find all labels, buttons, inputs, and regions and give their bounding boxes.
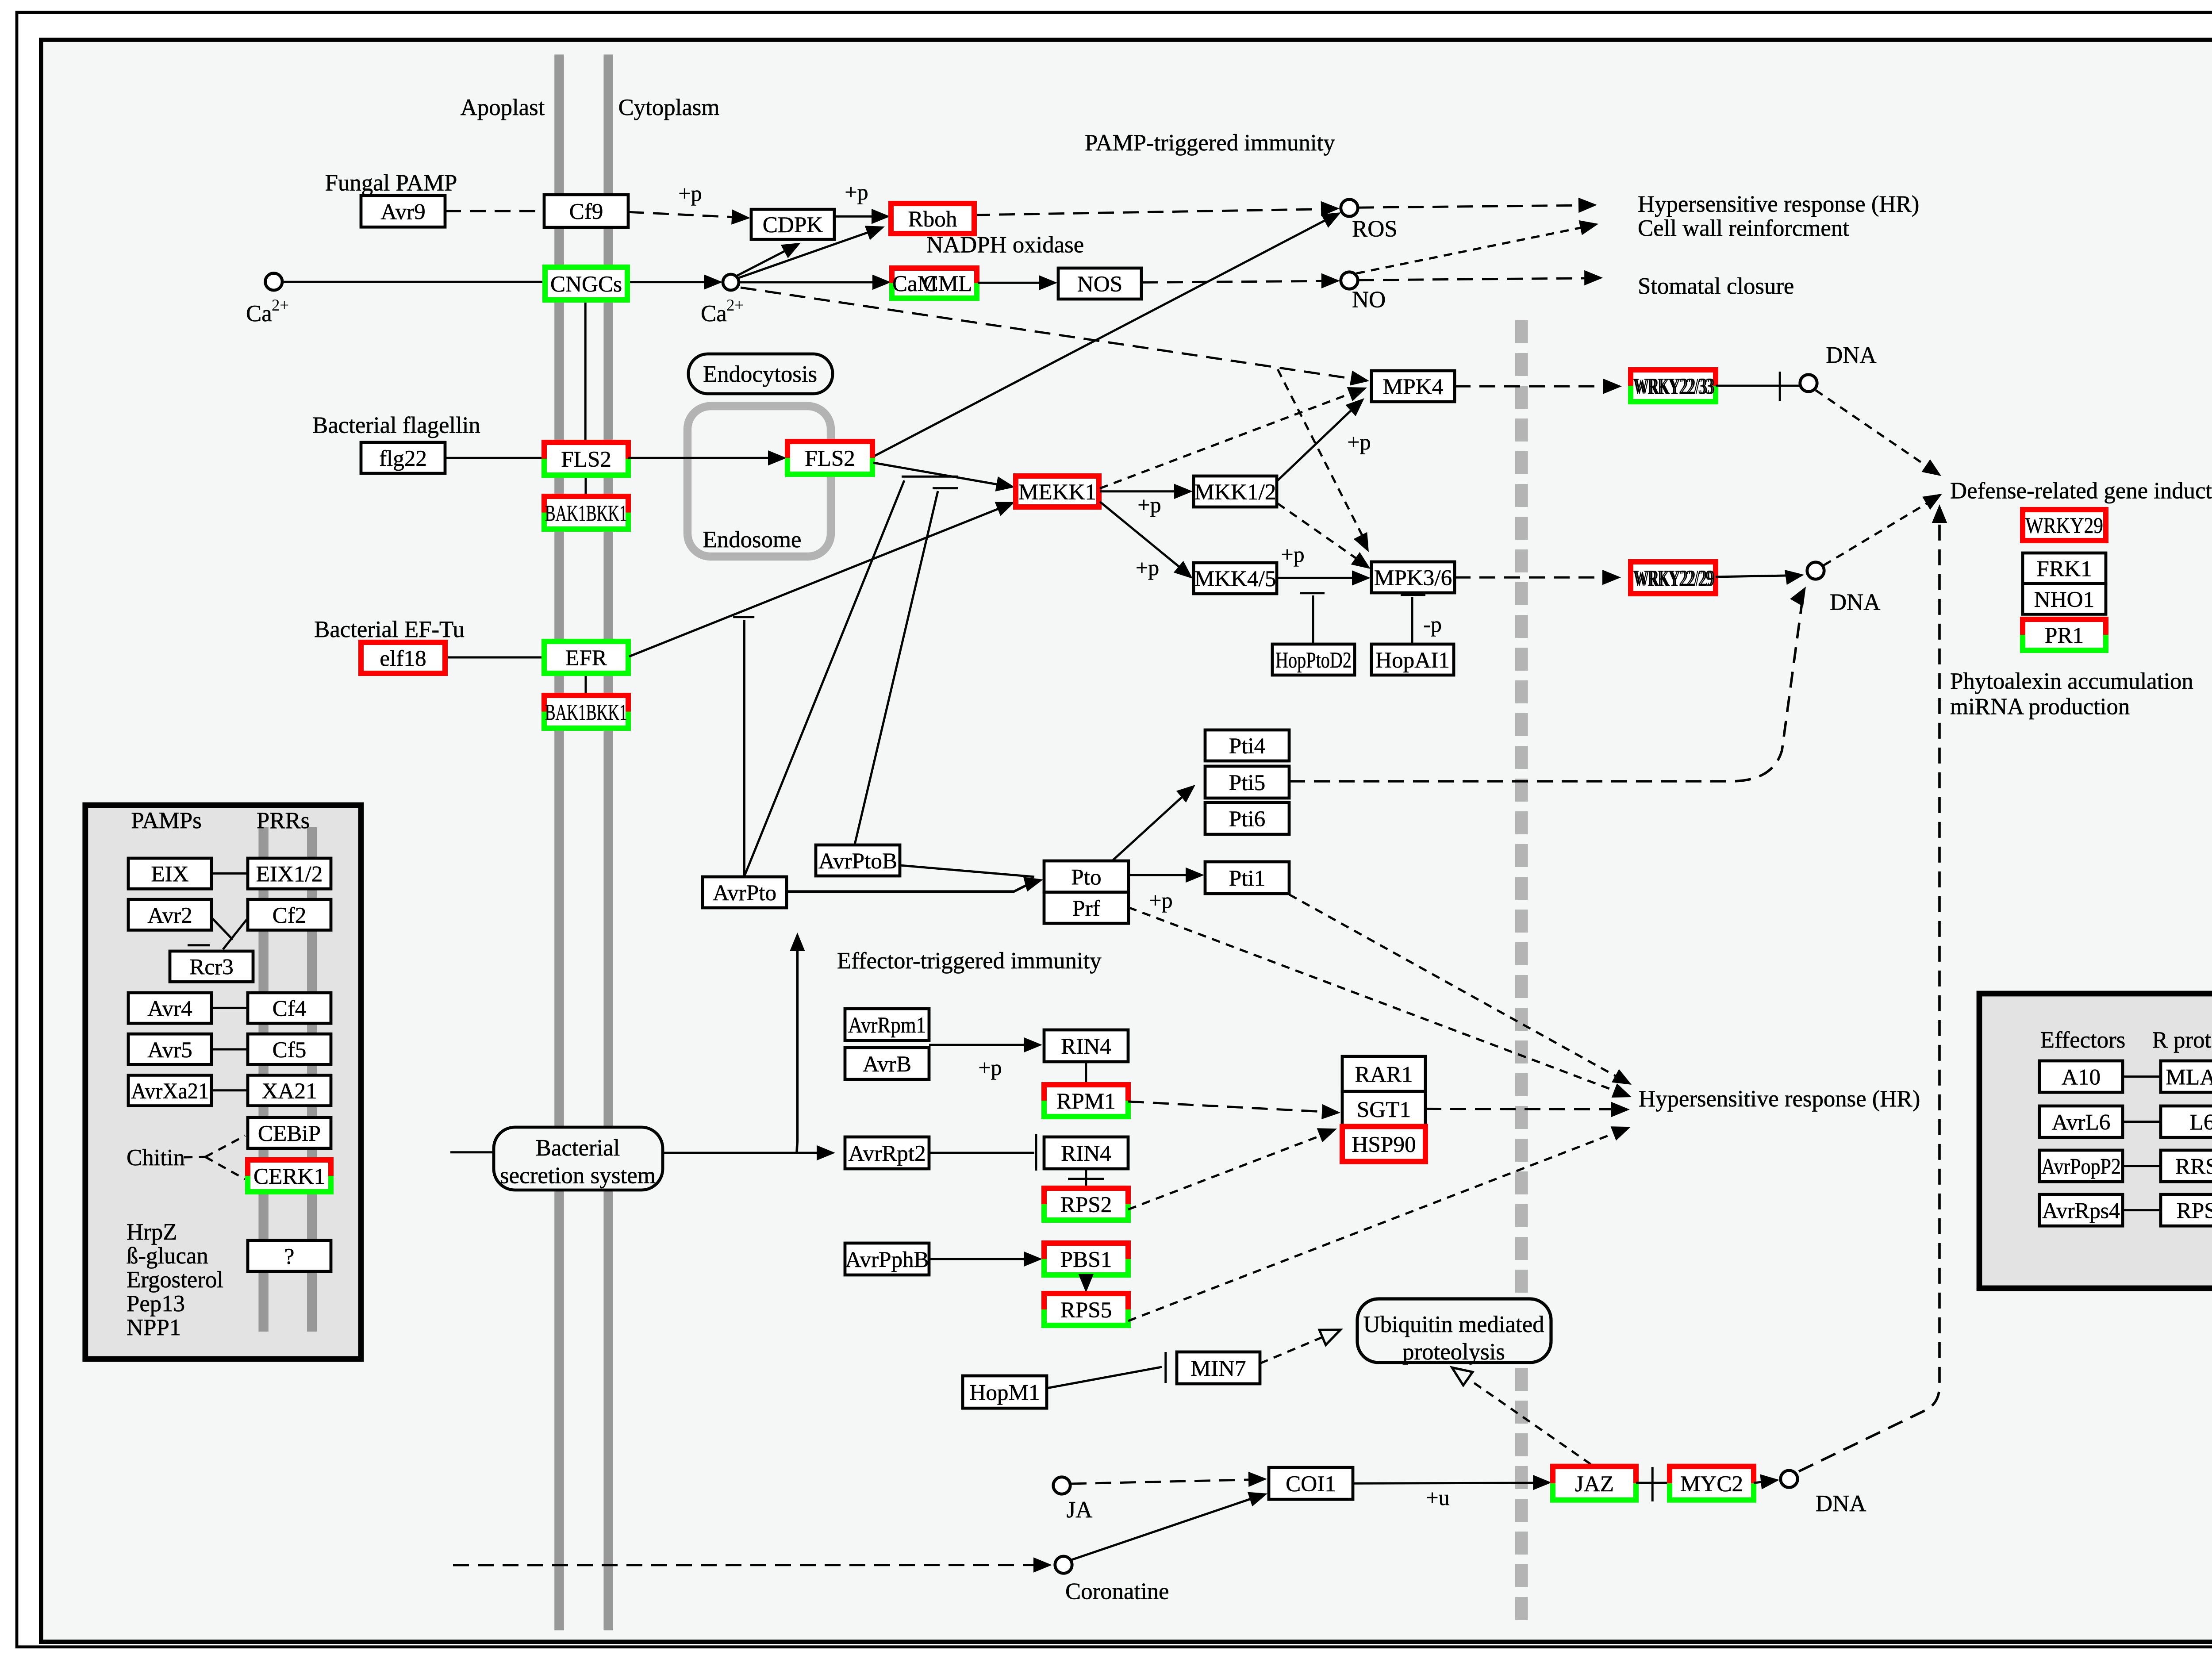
svg-text:+p: +p [978, 1055, 1002, 1080]
svg-text:HopM1: HopM1 [969, 1380, 1040, 1405]
svg-text:HrpZ: HrpZ [127, 1219, 177, 1245]
svg-text:AvrPopP2: AvrPopP2 [2041, 1154, 2121, 1179]
wire AvrRpm1-RIN4a [929, 1044, 1033, 1045]
wire FLS2endosome-ROS [873, 215, 1335, 457]
svg-text:-p: -p [1423, 612, 1442, 637]
wire flg22-FLS2 [445, 457, 544, 458]
wire Rcr3-Cf2 [223, 919, 247, 949]
wire AvrPto-Pto [787, 881, 1034, 891]
svg-text:+p: +p [1137, 492, 1161, 517]
svg-text:MPK4: MPK4 [1383, 374, 1444, 399]
svg-text:WRKY22/29: WRKY22/29 [1635, 566, 1715, 591]
wire AvrPopP2-RRS1 [2123, 1166, 2161, 1167]
svg-text:RRS1: RRS1 [2175, 1154, 2212, 1179]
wire Coronatine-COI1 [1071, 1496, 1260, 1560]
svg-text:MIN7: MIN7 [1190, 1356, 1246, 1381]
svg-text:+u: +u [1426, 1485, 1449, 1510]
box JAZ split [1553, 1467, 1636, 1500]
box NHO1 [2023, 584, 2106, 614]
svg-text:Cf2: Cf2 [273, 903, 307, 928]
wire AvrPtoB-Pto [900, 865, 1034, 877]
svg-text:EFR: EFR [565, 645, 607, 671]
svg-text:Pti1: Pti1 [1229, 866, 1266, 891]
svg-text:HopAI1: HopAI1 [1375, 648, 1450, 673]
svg-text:CML: CML [923, 271, 972, 296]
wire AvrPto diagonal inhibition [744, 480, 904, 877]
box AvrRpt2 [845, 1137, 929, 1169]
wire Pto-Pti5 [1113, 791, 1189, 860]
svg-text:RPS5: RPS5 [1060, 1298, 1112, 1323]
wire CNGCs-FLS2 vertical [585, 300, 586, 442]
box Cf4 [248, 993, 331, 1023]
box AvrPopP2 [2039, 1150, 2123, 1182]
box BAK1/BKK1 a split [544, 496, 628, 529]
svg-text:Prf: Prf [1072, 896, 1101, 921]
wire DNA2-defense dashed [1824, 497, 1937, 565]
svg-text:Pti6: Pti6 [1229, 806, 1266, 832]
box RAR1 [1342, 1056, 1425, 1091]
box Pti5 [1205, 766, 1289, 798]
wire MKK1/2-MPK3/6 dashed [1278, 503, 1365, 564]
svg-text:Avr9: Avr9 [380, 200, 425, 225]
wire Chitin branch [184, 1156, 205, 1158]
wire MYC2-DNA3 [1754, 1481, 1770, 1483]
svg-text:+p: +p [845, 180, 868, 204]
wire MIN7-ubiquitin dashed [1260, 1333, 1332, 1363]
svg-text:+p: +p [1136, 555, 1159, 580]
svg-text:EIX: EIX [151, 862, 188, 887]
wire JAZ-MYC2 inhibition [1636, 1482, 1670, 1483]
box MPK4 [1371, 371, 1455, 402]
box Pti4 [1205, 730, 1289, 761]
wire WRKY22/33-DNA1 inhibition [1716, 385, 1799, 386]
svg-text:2+: 2+ [726, 296, 744, 314]
svg-text:CNGCs: CNGCs [550, 272, 622, 297]
wire AvrXa21-XA21 [211, 1090, 248, 1091]
svg-text:CERK1: CERK1 [253, 1164, 325, 1189]
svg-text:Effector-triggered immunity: Effector-triggered immunity [837, 948, 1102, 974]
wire JA-COI1 dashed [1071, 1479, 1258, 1484]
box Rboh red [891, 203, 974, 234]
svg-text:AvrPtoB: AvrPtoB [818, 848, 897, 874]
box EIX [128, 858, 211, 889]
svg-text:Endocytosis: Endocytosis [703, 361, 817, 387]
svg-text:AvrL6: AvrL6 [2052, 1110, 2111, 1135]
box HopM1 [963, 1376, 1047, 1408]
svg-text:NOS: NOS [1077, 272, 1122, 297]
svg-text:NHO1: NHO1 [2034, 587, 2095, 612]
svg-text:Hypersensitive response (HR): Hypersensitive response (HR) [1639, 1086, 1920, 1112]
box CERK1 split [248, 1160, 331, 1192]
wire CaMCML-NOS [978, 282, 1048, 283]
box AvrPtoB [816, 845, 900, 876]
svg-text:RAR1: RAR1 [1355, 1062, 1413, 1087]
node Ca2+ outside [265, 273, 282, 290]
box flg22 [361, 442, 445, 473]
box Pto [1044, 861, 1129, 892]
svg-text:Avr2: Avr2 [147, 903, 192, 928]
svg-text:PAMPs: PAMPs [131, 808, 202, 833]
box RRS1 [2161, 1150, 2212, 1182]
svg-text:PBS1: PBS1 [1060, 1247, 1112, 1272]
box FLS2 endosome split [787, 441, 872, 474]
svg-text:Cf5: Cf5 [273, 1037, 307, 1063]
wire Avr9-Cf9 dashed [445, 211, 544, 211]
svg-text:DNA: DNA [1830, 589, 1880, 615]
wire into secretion system [450, 1152, 494, 1153]
box MLA10 [2161, 1061, 2212, 1092]
wire secretion-effectors vertical [797, 941, 797, 1153]
wire Cf9-CDPK dashed [628, 212, 741, 217]
svg-text:Bacterial: Bacterial [536, 1135, 620, 1161]
svg-text:AvrPphB: AvrPphB [845, 1247, 929, 1272]
wire MEKK1-MKK4/5 [1100, 502, 1186, 572]
svg-text:FLS2: FLS2 [561, 447, 611, 472]
svg-text:COI1: COI1 [1286, 1471, 1336, 1497]
node DNA2 [1807, 562, 1824, 579]
svg-text:Avr4: Avr4 [147, 996, 192, 1021]
node Coronatine [1055, 1556, 1072, 1573]
legend Effectors box [1979, 994, 2212, 1288]
wire AvrPphB-PBS1 [929, 1259, 1033, 1259]
box Avr5 [128, 1034, 211, 1064]
wire AvrL6-L6 [2123, 1121, 2161, 1122]
wire CNGCs-Ca2+node [627, 282, 713, 283]
svg-text:miRNA production: miRNA production [1950, 694, 2130, 719]
svg-text:AvrB: AvrB [863, 1052, 911, 1077]
wire RIN4a-RPM1 [1086, 1062, 1087, 1085]
wire DNA3-defense long dashed [1799, 513, 1939, 1471]
svg-text:+p: +p [1149, 888, 1172, 913]
shape Ubiquitin mediated proteolysis [1357, 1299, 1551, 1363]
box AvrPphB [845, 1243, 929, 1275]
svg-text:RIN4: RIN4 [1061, 1141, 1111, 1166]
svg-text:secretion system: secretion system [500, 1163, 656, 1188]
wire Pti5-DNA2 dashed [1289, 603, 1802, 781]
wire ROS-HR dashed [1358, 205, 1587, 207]
svg-text:AvrXa21: AvrXa21 [131, 1079, 209, 1104]
svg-text:Cf9: Cf9 [569, 199, 603, 224]
box L6 [2161, 1106, 2212, 1137]
box MPK3/6 [1371, 562, 1455, 593]
svg-text:Effectors: Effectors [2040, 1027, 2126, 1053]
wire Avr5-Cf5 [211, 1049, 248, 1050]
wire EIX-EIX1/2 [211, 873, 248, 874]
wire Pti1-HR dashed [1289, 895, 1624, 1081]
svg-text:SGT1: SGT1 [1357, 1097, 1411, 1122]
wire COI1-JAZ [1353, 1483, 1541, 1483]
box PR1 split [2023, 619, 2106, 650]
svg-text:XA21: XA21 [261, 1079, 317, 1104]
svg-text:Phytoalexin accumulation: Phytoalexin accumulation [1950, 668, 2193, 694]
box Rcr3 [170, 951, 253, 982]
box EIX1/2 [248, 858, 331, 889]
svg-text:Stomatal closure: Stomatal closure [1638, 273, 1794, 299]
svg-text:EIX1/2: EIX1/2 [256, 862, 323, 887]
svg-text:NADPH oxidase: NADPH oxidase [926, 232, 1084, 257]
svg-text:BAK1BKK1: BAK1BKK1 [545, 501, 627, 526]
svg-text:Defense-related gene induction: Defense-related gene induction [1950, 478, 2212, 503]
box SGT1 [1342, 1091, 1425, 1126]
svg-text:Bacterial flagellin: Bacterial flagellin [312, 412, 480, 438]
box COI1 [1269, 1467, 1353, 1499]
wire NO-stomatal dashed [1358, 278, 1594, 280]
svg-text:Rcr3: Rcr3 [189, 955, 234, 980]
svg-text:HSP90: HSP90 [1352, 1132, 1416, 1157]
wire MKK4/5-MPK3/6 [1277, 577, 1362, 578]
svg-text:PAMP-triggered immunity: PAMP-triggered immunity [1085, 130, 1335, 156]
svg-text:2+: 2+ [272, 296, 289, 314]
svg-text:MLA10: MLA10 [2166, 1065, 2212, 1090]
svg-text:JAZ: JAZ [1575, 1471, 1614, 1497]
shape Bacterial secretion system [494, 1127, 663, 1190]
wire Avr4-Cf4 [211, 1007, 248, 1008]
wire Ca2+node-MPK4 dashed [741, 288, 1359, 380]
box MKK4/5 [1194, 563, 1277, 594]
wire Ca2+out-CNGCs [282, 281, 544, 282]
svg-text:RPM1: RPM1 [1056, 1089, 1116, 1114]
wire AvrRps4-RPS4 [2123, 1210, 2161, 1211]
svg-text:RIN4: RIN4 [1061, 1034, 1111, 1059]
box RPM1 split [1044, 1085, 1128, 1117]
svg-text:BAK1BKK1: BAK1BKK1 [545, 700, 627, 725]
svg-text:NPP1: NPP1 [127, 1315, 181, 1340]
box RPS4 [2161, 1194, 2212, 1226]
node Ca2+ inside [723, 274, 739, 290]
box Cf2 [248, 899, 331, 930]
svg-text:MPK3/6: MPK3/6 [1374, 565, 1452, 591]
node JA [1053, 1477, 1070, 1494]
svg-text:+p: +p [1281, 542, 1304, 567]
svg-text:Pti4: Pti4 [1229, 733, 1266, 759]
wire FLS2m-FLS2e [628, 457, 778, 458]
box Avr2 [128, 899, 211, 930]
box question [248, 1240, 331, 1271]
svg-text:ROS: ROS [1352, 216, 1398, 242]
wire NOS-NO dashed [1142, 281, 1331, 282]
svg-text:HopPtoD2: HopPtoD2 [1275, 648, 1352, 673]
svg-text:NO: NO [1352, 287, 1386, 312]
wire MEKK1-MKK1/2 [1100, 491, 1184, 492]
svg-text:Pti5: Pti5 [1229, 770, 1266, 795]
shape Endosome [687, 406, 831, 557]
svg-text:RPS2: RPS2 [1060, 1192, 1112, 1217]
wire Avr2-Rcr3 inhibition [211, 918, 233, 940]
box RPS2 split [1044, 1188, 1128, 1220]
svg-text:DNA: DNA [1816, 1491, 1866, 1516]
svg-text:WRKY22/33: WRKY22/33 [1635, 374, 1715, 399]
box MEKK1 red [1016, 476, 1099, 507]
box XA21 [248, 1075, 331, 1106]
wire HopM1-MIN7 inhibition [1047, 1367, 1162, 1388]
wire AvrPtoB inhibition [855, 491, 938, 845]
legend PAMPs box [85, 805, 361, 1359]
box Pti1 [1205, 862, 1289, 894]
box MKK1/2 [1194, 476, 1277, 507]
svg-text:Coronatine: Coronatine [1065, 1578, 1169, 1604]
svg-text:+p: +p [1347, 430, 1371, 454]
svg-text:Ca: Ca [701, 301, 727, 326]
svg-text:R proteins: R proteins [2152, 1027, 2212, 1053]
wire RIN4b-RPS2 inhibition [1086, 1169, 1087, 1188]
box AvrXa21 [128, 1075, 211, 1106]
box Prf [1044, 892, 1129, 923]
box Pti6 [1205, 802, 1289, 834]
box MIN7 [1177, 1352, 1260, 1384]
svg-text:proteolysis: proteolysis [1402, 1339, 1505, 1365]
shape Endocytosis [688, 354, 833, 394]
svg-text:ß-glucan: ß-glucan [127, 1243, 208, 1269]
svg-text:AvrRpm1: AvrRpm1 [848, 1013, 926, 1038]
wire RPM1-SGT1 dashed [1128, 1102, 1332, 1112]
box Avr9 [361, 196, 445, 227]
svg-text:MYC2: MYC2 [1680, 1471, 1743, 1497]
svg-text:Cell wall reinforcment: Cell wall reinforcment [1638, 215, 1849, 241]
svg-text:AvrRpt2: AvrRpt2 [848, 1141, 926, 1166]
svg-text:PRRs: PRRs [257, 808, 310, 833]
svg-text:Cf4: Cf4 [273, 996, 307, 1021]
svg-text:Fungal PAMP: Fungal PAMP [325, 170, 457, 196]
wire AvrRpt2-RIN4b inhibition [929, 1152, 1034, 1153]
svg-text:PR1: PR1 [2045, 623, 2084, 648]
svg-text:MEKK1: MEKK1 [1018, 480, 1096, 505]
box BAK1/BKK1 b split [544, 695, 628, 728]
svg-text:FLS2: FLS2 [805, 446, 855, 471]
svg-text:AvrRps4: AvrRps4 [2042, 1198, 2120, 1224]
box RPS5 split [1044, 1294, 1128, 1325]
wire HopAI1 inhibition [1412, 597, 1413, 644]
svg-text:Cytoplasm: Cytoplasm [618, 95, 720, 120]
svg-text:Avr5: Avr5 [147, 1037, 192, 1063]
box Cf5 [248, 1034, 331, 1064]
box CaM/CML split [892, 268, 977, 298]
node DNA3 [1781, 1470, 1797, 1487]
wire Ca2+node-CDPK [737, 246, 794, 276]
svg-text:Rboh: Rboh [908, 207, 957, 232]
box elf18 red [361, 642, 445, 673]
box HopAI1 [1371, 644, 1454, 675]
wire RPS2-HSP90 dashed [1128, 1132, 1330, 1209]
box WRKY22/29 red [1631, 562, 1716, 594]
wire MPK3/6-WRKY22/29 dashed [1455, 577, 1611, 578]
wire EFR-MEKK1 [629, 505, 1007, 656]
svg-text:Pto: Pto [1071, 864, 1101, 890]
box RIN4b [1044, 1137, 1128, 1169]
svg-text:Apoplast: Apoplast [461, 95, 545, 120]
svg-text:flg22: flg22 [379, 446, 427, 471]
wire RPS5-HR dashed [1128, 1130, 1623, 1321]
wire Ca2+node-Rboh [739, 229, 878, 278]
wire CDPK-Rboh [834, 216, 881, 217]
wire secretion-AvrRpt2 [663, 1152, 826, 1153]
wire WRKY22/29-DNA2 [1716, 576, 1793, 577]
wire FLS2m-BAK1a [585, 475, 586, 496]
svg-text:Pep13: Pep13 [127, 1291, 185, 1317]
svg-text:+p: +p [678, 181, 702, 206]
wire MKK1/2-MPK4 [1278, 404, 1358, 480]
svg-text:WRKY29: WRKY29 [2025, 513, 2103, 538]
svg-text:Chitin: Chitin [127, 1145, 185, 1171]
plasma membrane bar 2 [607, 54, 609, 1630]
svg-text:elf18: elf18 [380, 646, 426, 671]
svg-text:DNA: DNA [1826, 342, 1876, 368]
node NO [1341, 272, 1358, 289]
box CDPK [751, 209, 834, 239]
box WRKY29 red [2023, 510, 2106, 541]
svg-text:FRK1: FRK1 [2036, 557, 2092, 582]
box CNGCs green [545, 267, 627, 300]
svg-text:JA: JA [1067, 1497, 1093, 1523]
wire Prf-HR dashed [1129, 907, 1624, 1094]
box HSP90 red [1342, 1126, 1425, 1161]
svg-text:Bacterial EF-Tu: Bacterial EF-Tu [314, 617, 465, 642]
wire FLS2e-MEKK1 [873, 463, 1006, 486]
wire Pto-Pti1 [1129, 875, 1195, 875]
wire elf18-EFR [445, 657, 544, 658]
svg-text:Ergosterol: Ergosterol [127, 1267, 223, 1293]
box A10 [2039, 1061, 2123, 1092]
box Cf9 [544, 195, 628, 227]
box AvrB [845, 1048, 929, 1079]
box CEBiP [248, 1117, 331, 1148]
svg-text:AvrPto: AvrPto [713, 880, 776, 906]
wire AvrPto vertical inhibition [744, 620, 745, 877]
wire Ca2+branch-MPK3/6 dashed [1278, 369, 1366, 542]
box MYC2 split [1670, 1467, 1754, 1500]
svg-text:Hypersensitive response (HR): Hypersensitive response (HR) [1638, 191, 1919, 217]
svg-text:?: ? [284, 1244, 295, 1269]
svg-text:A10: A10 [2062, 1065, 2101, 1090]
legend mini membrane bar 2 [311, 827, 313, 1332]
node ROS [1341, 200, 1358, 216]
box FRK1 [2023, 553, 2106, 584]
plasma membrane bar 1 [558, 54, 560, 1630]
box HopPtoD2 [1272, 644, 1355, 675]
wire coronatine dashed [453, 1565, 1043, 1566]
box PBS1 split [1044, 1243, 1128, 1275]
box WRKY22/33 split [1631, 370, 1716, 402]
svg-text:MKK4/5: MKK4/5 [1194, 566, 1276, 591]
box AvrL6 [2039, 1106, 2123, 1137]
svg-text:RPS4: RPS4 [2177, 1198, 2212, 1224]
nuclear membrane dashed bar [1520, 320, 1523, 1621]
wire MEKK1-MPK4 dashed [1100, 391, 1359, 488]
svg-text:L6: L6 [2190, 1110, 2212, 1135]
wire HopPtoD2 inhibition [1313, 595, 1313, 644]
svg-text:Ubiquitin mediated: Ubiquitin mediated [1363, 1312, 1544, 1337]
wire EFR-BAK1b [585, 673, 586, 695]
svg-text:CDPK: CDPK [763, 212, 823, 238]
svg-text:CEBiP: CEBiP [258, 1121, 321, 1146]
box AvrPto [703, 877, 787, 908]
box AvrRpm1 [845, 1009, 929, 1040]
wire Ca2+node-CaMCML [739, 282, 882, 283]
wire NO-cellwall dashed [1356, 226, 1590, 273]
box AvrRps4 [2039, 1194, 2123, 1226]
svg-text:Endosome: Endosome [703, 527, 802, 553]
svg-text:MKK1/2: MKK1/2 [1194, 480, 1276, 505]
wire A10-MLA10 [2123, 1076, 2161, 1077]
box NOS [1058, 268, 1141, 299]
wire JAZ-ubiquitin dashed [1459, 1372, 1591, 1464]
box Avr4 [128, 993, 211, 1023]
legend mini membrane bar 1 [262, 827, 265, 1332]
wire PBS1-RPS5 [1086, 1275, 1087, 1285]
box EFR green [544, 641, 628, 673]
wire SGT1-HR dashed [1425, 1109, 1621, 1109]
svg-text:Ca: Ca [246, 301, 272, 326]
box RIN4a [1044, 1030, 1128, 1062]
